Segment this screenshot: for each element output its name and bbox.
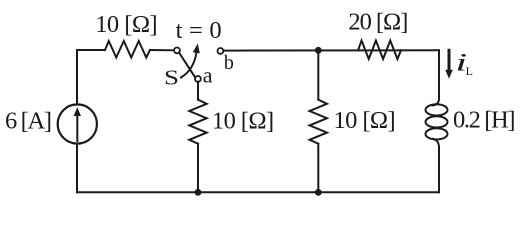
wire right vertical lower: [438, 148, 440, 193]
label current iL: [455, 50, 473, 78]
svg-text:S: S: [164, 66, 179, 90]
svg-text:t = 0: t = 0: [176, 17, 222, 44]
wire left vertical upper: [76, 50, 78, 104]
wire right vertical upper lead: [438, 50, 440, 98]
inductor L1 0.2H coil: [426, 99, 448, 148]
svg-text:20 [Ω]: 20 [Ω]: [348, 9, 408, 36]
svg-text:10 [Ω]: 10 [Ω]: [212, 108, 274, 135]
current source arrow up: [74, 107, 81, 141]
wire R3 to bottom: [197, 144, 199, 193]
wire R4 to bottom: [317, 144, 319, 193]
junction dot bottom middle branch: [315, 189, 322, 196]
resistor R3 10ohm vertical (switch branch): [189, 100, 206, 144]
wire from contact a down: [197, 82, 199, 100]
junction dot bottom switch branch: [195, 189, 202, 196]
svg-text:b: b: [224, 52, 234, 74]
svg-text:L: L: [466, 64, 473, 78]
svg-text:6 [A]: 6 [A]: [5, 108, 52, 135]
wire bottom horizontal: [77, 191, 439, 193]
switch contact a circle: [195, 76, 201, 82]
switch contact b circle: [218, 48, 224, 54]
wire left vertical lower: [76, 144, 78, 193]
svg-text:10 [Ω]: 10 [Ω]: [334, 107, 396, 134]
wire from contact b to right: [223, 49, 439, 51]
resistor R1 10ohm top-left zigzag: [105, 41, 150, 58]
switch blade from pole to a: [179, 53, 195, 77]
svg-text:0.2 [H]: 0.2 [H]: [453, 106, 516, 133]
switch S pole contact circle: [174, 48, 180, 54]
current iL arrow down: [445, 50, 453, 78]
wire middle vertical upper: [317, 50, 319, 99]
wire top-left horizontal: [77, 49, 105, 51]
svg-text:a: a: [203, 63, 213, 88]
wire R1 to switch pole: [150, 49, 174, 51]
resistor R2 20ohm zigzag top-right: [358, 41, 401, 60]
switch motion arrow curve: [181, 44, 200, 78]
junction dot top middle: [315, 47, 322, 54]
svg-text:10 [Ω]: 10 [Ω]: [95, 11, 158, 38]
resistor R4 10ohm vertical (middle branch): [310, 100, 327, 144]
current source I1 6A circle: [58, 104, 97, 143]
